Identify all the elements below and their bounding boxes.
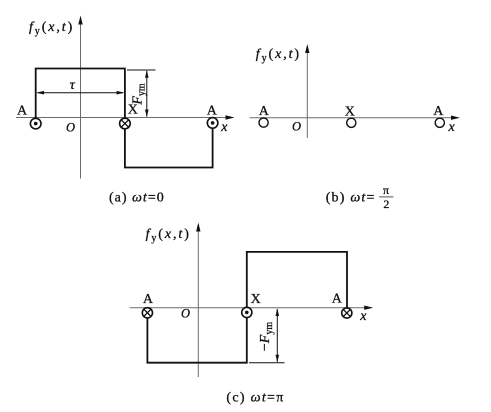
svg-text:x: x <box>448 120 456 135</box>
svg-text:A: A <box>207 103 218 118</box>
svg-text:τ: τ <box>70 78 76 93</box>
svg-text:A: A <box>259 104 270 119</box>
svg-text:fy(x,t): fy(x,t) <box>256 47 301 64</box>
svg-text:−Fym: −Fym <box>258 322 275 351</box>
svg-text:fy(x,t): fy(x,t) <box>29 20 74 37</box>
svg-text:x: x <box>359 309 367 324</box>
svg-text:O: O <box>292 119 301 133</box>
svg-text:X: X <box>128 102 138 117</box>
svg-text:O: O <box>181 306 190 320</box>
svg-text:fy(x,t): fy(x,t) <box>146 227 191 244</box>
svg-text:(a) ωt=0: (a) ωt=0 <box>109 190 165 205</box>
svg-text:(b) ωt=: (b) ωt= <box>326 191 376 206</box>
svg-text:x: x <box>220 120 228 135</box>
svg-text:π: π <box>383 183 389 197</box>
svg-text:A: A <box>332 291 343 306</box>
svg-text:A: A <box>17 103 28 118</box>
svg-text:A: A <box>433 104 444 119</box>
svg-text:A: A <box>143 292 154 307</box>
svg-text:X: X <box>251 292 261 307</box>
svg-text:O: O <box>66 121 75 135</box>
svg-text:X: X <box>345 105 355 120</box>
svg-text:(c) ωt=π: (c) ωt=π <box>226 390 284 405</box>
svg-text:2: 2 <box>383 197 389 211</box>
